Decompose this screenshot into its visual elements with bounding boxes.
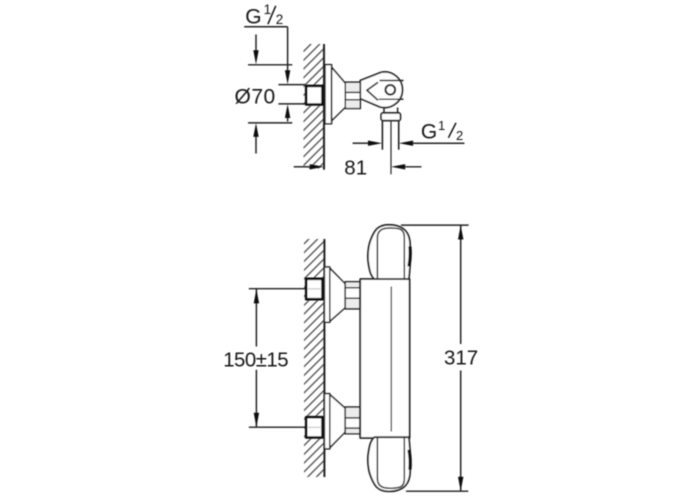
svg-text:150±15: 150±15 xyxy=(223,350,288,372)
svg-text:1: 1 xyxy=(438,118,445,133)
svg-text:81: 81 xyxy=(344,156,367,179)
svg-text:G: G xyxy=(421,121,437,144)
svg-text:317: 317 xyxy=(444,347,478,370)
svg-text:2: 2 xyxy=(276,12,284,27)
svg-text:Ø70: Ø70 xyxy=(235,85,276,108)
svg-text:G: G xyxy=(245,6,261,29)
svg-text:1: 1 xyxy=(264,2,272,17)
svg-text:2: 2 xyxy=(456,128,463,143)
